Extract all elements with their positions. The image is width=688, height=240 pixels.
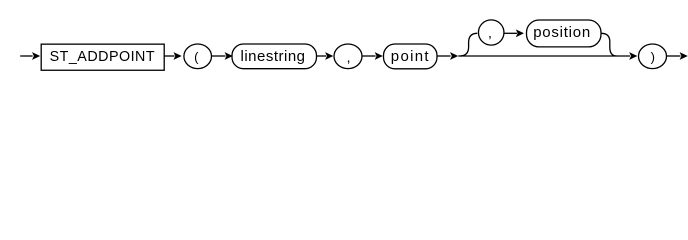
- arrowhead into ST_ADDPOINT: [32, 52, 40, 60]
- ellipse (: [184, 44, 212, 69]
- arrowhead into linestring: [225, 52, 233, 60]
- capsule point: [384, 44, 438, 69]
- wire: rect to (: [164, 55, 174, 57]
- ellipse ): [639, 44, 667, 69]
- terminal box ST_ADDPOINT: [41, 44, 164, 70]
- wire: start line: [20, 55, 32, 57]
- arrowhead into point: [375, 52, 383, 60]
- wire: branch curve down to main line: [601, 33, 617, 56]
- svg-text:ST_ADDPOINT: ST_ADDPOINT: [50, 49, 155, 65]
- arrowhead on main line after point: [450, 52, 458, 60]
- arrowhead into (: [174, 52, 182, 60]
- capsule linestring: [232, 44, 317, 69]
- wire: comma to point: [362, 55, 376, 57]
- arrowhead into ): [629, 52, 637, 60]
- svg-text:point: point: [391, 48, 430, 65]
- svg-text:,: ,: [347, 49, 351, 65]
- ellipse comma: [334, 44, 362, 69]
- wire: ) to end: [667, 55, 681, 57]
- arrowhead end of statement: [680, 52, 688, 60]
- capsule position: [527, 20, 602, 47]
- svg-text:,: ,: [488, 24, 492, 40]
- arrowhead into comma: [325, 52, 333, 60]
- wire: branch curve up to optional row: [460, 33, 477, 56]
- ellipse comma optional: [478, 20, 504, 45]
- wire: linestring to comma: [317, 55, 327, 57]
- wire: main skip line under optional branch: [458, 55, 630, 57]
- wire: ( to linestring: [212, 55, 226, 57]
- svg-text:position: position: [533, 24, 590, 41]
- wire: comma to position: [504, 32, 517, 34]
- wire: point to branch junction: [437, 55, 451, 57]
- arrowhead into position: [516, 29, 524, 37]
- svg-text:(: (: [194, 49, 199, 64]
- svg-text:linestring: linestring: [241, 48, 306, 65]
- svg-text:): ): [651, 49, 655, 64]
